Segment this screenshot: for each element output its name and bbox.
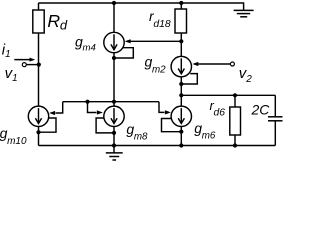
svg-text:gm6: gm6 [194,120,216,141]
svg-text:rd18: rd18 [149,8,171,30]
svg-text:v2: v2 [239,65,253,85]
svg-text:gm8: gm8 [126,121,148,143]
svg-text:i1: i1 [2,41,11,60]
svg-text:gm2: gm2 [145,54,167,76]
svg-text:gm4: gm4 [75,33,96,53]
svg-text:gm10: gm10 [0,125,27,147]
svg-text:rd6: rd6 [210,98,226,118]
svg-text:Rd: Rd [47,11,67,33]
svg-text:v1: v1 [5,65,18,84]
svg-text:2C: 2C [251,101,271,117]
